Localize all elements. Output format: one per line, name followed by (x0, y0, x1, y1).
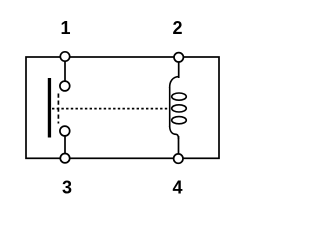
terminal pin 2 (174, 53, 183, 62)
relay case outline (26, 57, 219, 158)
fixed contact blade (48, 78, 51, 138)
terminal pin 1 (60, 52, 69, 61)
wire coil to pin4 (178, 136, 180, 158)
terminal pin 4 (174, 154, 183, 163)
mechanical link dotted line (52, 108, 171, 110)
armature dashed line (57, 94, 59, 124)
wire lower contact to pin3 (64, 131, 66, 158)
svg-text:1: 1 (60, 18, 70, 38)
wire pin1 to upper contact (64, 57, 66, 86)
terminal pin 3 (60, 154, 69, 163)
upper contact circle (60, 81, 70, 91)
coil L1 (170, 77, 187, 140)
svg-text:4: 4 (172, 178, 182, 198)
wire pin2 to coil (178, 57, 180, 78)
svg-text:2: 2 (172, 18, 182, 38)
lower contact circle (60, 126, 70, 136)
svg-text:3: 3 (62, 178, 72, 198)
